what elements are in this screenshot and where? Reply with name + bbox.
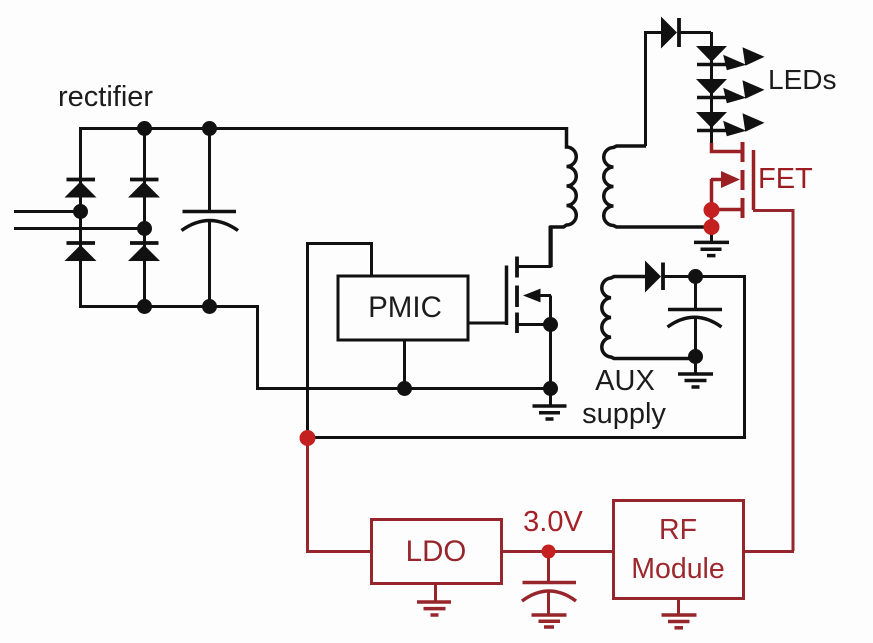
wire AUX output [306, 277, 745, 438]
wire Q2 gate to RF module (red) [753, 211, 793, 552]
svg-text:AUX: AUX [595, 365, 655, 397]
wire PMIC ground pin [403, 340, 406, 388]
wire bottom rail drop [256, 307, 550, 389]
node dot Q1 source [543, 317, 558, 332]
node dot top rail / capacitor [202, 121, 217, 136]
wire AC input line 2 [14, 227, 145, 230]
capacitor C3 (red) [522, 551, 576, 614]
wire bridge bottom rail [79, 305, 257, 308]
capacitor C1 bulk [182, 128, 239, 306]
LED3 [696, 112, 727, 131]
diode D2 bridge upper-middle [128, 180, 160, 198]
node dot Q1 source / rail [543, 381, 558, 396]
ground G6 RF (red) [662, 599, 697, 628]
block RF Module U3 [614, 501, 744, 599]
svg-text:LEDs: LEDs [768, 64, 836, 95]
diode D1 bridge upper-left [65, 180, 97, 198]
transistor Q2 FET (red) [711, 142, 754, 226]
transistor Q1 MOSFET [507, 226, 552, 389]
wire bridge left leg [79, 128, 82, 306]
wire PMIC feedback loop [308, 244, 372, 438]
wire RF output to FET gate (red) [743, 550, 794, 553]
wire bridge middle leg [143, 128, 146, 306]
block LDO U2 [372, 520, 502, 584]
wire top rail [79, 127, 566, 130]
svg-text:LDO: LDO [406, 535, 467, 568]
node dot AUX cap bottom [688, 349, 703, 364]
diode D6 AUX [645, 261, 695, 293]
diode D3 bridge lower-left [65, 243, 97, 261]
node dot PMIC ground [397, 381, 412, 396]
diode D4 bridge lower-middle [128, 243, 160, 261]
svg-text:FET: FET [758, 163, 813, 195]
svg-text:RF: RF [659, 514, 697, 546]
wire AC input line 1 [14, 210, 81, 213]
node dot 3.0V (red) [542, 545, 556, 559]
wire PMIC gate lead [468, 322, 505, 325]
svg-text:Module: Module [631, 553, 724, 585]
inductor L1 AUX winding [602, 277, 695, 359]
node dot secondary return (red) [704, 219, 720, 235]
wire LDO input (red) [308, 438, 372, 552]
ground G5 cap (red) [532, 615, 567, 627]
ground G2 [678, 356, 713, 387]
node dot LDO input (red) [300, 430, 316, 446]
capacitor C2 AUX [668, 276, 723, 356]
node dot AUX diode / cap [688, 269, 703, 284]
wire LED string drop [710, 32, 713, 143]
wire secondary top riser [646, 33, 662, 147]
node dot AC1 / left leg [73, 204, 88, 219]
ground G4 LDO [417, 583, 451, 615]
wire LDO output (red) [501, 550, 613, 553]
LED2 emission arrows [723, 80, 764, 103]
transformer T1 primary winding [551, 127, 576, 267]
ground G1 [533, 388, 567, 419]
LED1 [696, 46, 727, 65]
LED2 [696, 79, 727, 98]
svg-text:rectifier: rectifier [58, 81, 153, 113]
svg-text:supply: supply [582, 398, 666, 430]
node dot bottom rail / capacitor [202, 299, 217, 314]
svg-text:PMIC: PMIC [368, 291, 442, 324]
block PMIC U1 [338, 276, 468, 340]
svg-text:3.0V: 3.0V [523, 506, 583, 538]
node dot AC2 / middle leg [137, 221, 152, 236]
ground G3 [694, 227, 729, 256]
node dot top rail / middle leg [137, 121, 152, 136]
LED3 emission arrows [723, 113, 764, 136]
transformer T1 secondary winding [604, 146, 714, 227]
diode D5 series [661, 17, 711, 49]
node dot Q2 source (red) [704, 202, 720, 218]
node dot bottom rail / middle leg [137, 299, 152, 314]
LED1 emission arrows [723, 47, 764, 70]
